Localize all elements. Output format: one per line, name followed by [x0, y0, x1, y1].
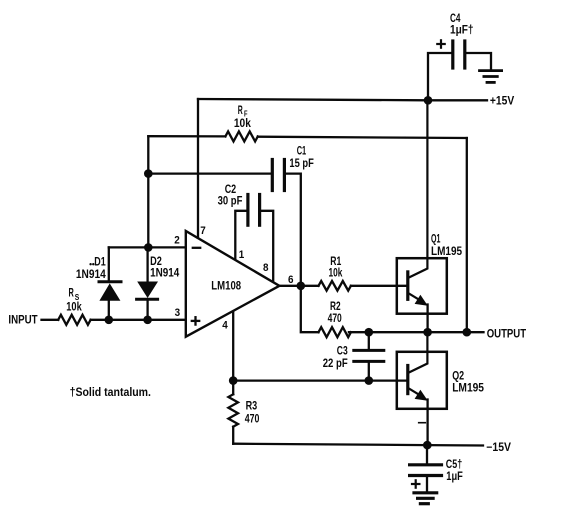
svg-text:1N914: 1N914: [150, 267, 180, 279]
resistor R1: [319, 281, 351, 291]
node C3 top: [365, 328, 374, 337]
svg-text:LM195: LM195: [452, 383, 484, 395]
capacitor C3: [354, 350, 384, 361]
svg-text:−15V: −15V: [486, 442, 511, 454]
node summing junction A: [144, 169, 153, 178]
svg-text:R2: R2: [330, 301, 341, 313]
wire C4 left branch: [428, 53, 453, 100]
svg-text:10k: 10k: [329, 268, 343, 280]
wire C2 right to pin 8: [260, 211, 274, 280]
node input/D1: [105, 316, 114, 325]
wire C4 right to ground: [465, 53, 491, 69]
svg-text:C3: C3: [337, 346, 348, 358]
wire D2 upper: [146, 247, 148, 281]
svg-text:INPUT: INPUT: [8, 315, 37, 327]
node +15V junction: [424, 96, 433, 105]
wire Q2 base line: [233, 379, 408, 381]
svg-text:D2: D2: [150, 256, 162, 268]
wire C5 top stub: [426, 445, 428, 463]
svg-text:C5†: C5†: [446, 459, 462, 471]
transistor Q1 emitter: [409, 294, 422, 302]
node C3 bottom: [365, 376, 374, 385]
wire RF feedback line: [148, 135, 225, 137]
resistor Rs: [58, 315, 90, 325]
wire D2 lower: [146, 299, 148, 320]
capacitor C2: [248, 195, 260, 226]
svg-text:470: 470: [328, 313, 342, 325]
svg-text:OUTPUT: OUTPUT: [487, 329, 526, 341]
resistor R2: [319, 327, 351, 337]
svg-text:6: 6: [288, 274, 294, 286]
ground (C5): [414, 493, 437, 504]
transistor Q2 base bar: [406, 366, 409, 394]
svg-text:C2: C2: [225, 184, 237, 196]
wire C3 stubs: [368, 332, 370, 350]
transistor Q1 collector: [409, 102, 428, 278]
diode D1 1N914: [99, 282, 121, 301]
svg-text:3: 3: [175, 307, 181, 319]
svg-text:1μF†: 1μF†: [450, 24, 474, 36]
capacitor C4: [453, 41, 465, 68]
ground (C4): [480, 71, 502, 83]
label C4 + polarity: [437, 40, 444, 47]
capacitor C1: [272, 160, 284, 191]
wire -15V rail: [233, 444, 483, 446]
transistor Q2 LM195 box: [397, 352, 447, 409]
wire artifact dash: [419, 422, 426, 424]
wire +15V top rail: [198, 99, 487, 100]
dots before D1: [89, 263, 91, 265]
svg-text:R1: R1: [330, 256, 341, 268]
wire C5 bottom stub: [426, 476, 428, 492]
transistor Q2 collector: [409, 332, 428, 372]
svg-text:R: R: [238, 105, 243, 117]
wire C1 line: [148, 172, 272, 174]
wire pin 4 vertical: [232, 313, 234, 381]
node pin4 / base line: [229, 376, 238, 385]
svg-text:1: 1: [239, 249, 245, 261]
svg-text:C4: C4: [450, 13, 461, 25]
wire output line: [349, 331, 484, 333]
op-amp minus sign: [193, 247, 200, 249]
svg-text:R: R: [69, 288, 75, 300]
resistor RF: [225, 131, 257, 141]
node input/D2: [143, 316, 152, 325]
node pin2/D junction: [144, 243, 153, 252]
svg-text:D1: D1: [94, 256, 106, 268]
svg-text:†Solid tantalum.: †Solid tantalum.: [70, 387, 151, 399]
wire D1 lower: [108, 301, 110, 320]
node 6: [297, 282, 306, 291]
transistor Q1 base bar: [406, 272, 409, 299]
svg-text:7: 7: [200, 225, 206, 237]
svg-text:22 pF: 22 pF: [323, 358, 348, 370]
svg-text:LM195: LM195: [431, 246, 463, 258]
transistor Q1 LM195 box: [397, 258, 447, 314]
svg-text:R3: R3: [246, 401, 258, 413]
diode D2 1N914: [137, 282, 158, 300]
svg-text:2: 2: [174, 235, 180, 247]
svg-text:4: 4: [222, 320, 228, 332]
svg-text:30 pF: 30 pF: [218, 195, 243, 207]
wire right vertical feedback to output: [466, 138, 468, 332]
label C5 + polarity: [412, 480, 419, 487]
wire pin 6 output of op-amp: [279, 285, 318, 287]
op-amp U1 LM108 triangle: [186, 231, 280, 337]
svg-text:+15V: +15V: [490, 96, 515, 108]
transistor Q2 emitter: [409, 389, 422, 397]
wire C2 left to pin 1: [235, 211, 248, 259]
svg-text:Q2: Q2: [452, 370, 464, 382]
wire C1 right to output node: [284, 174, 300, 286]
svg-text:Q1: Q1: [431, 234, 441, 246]
node -15V junction: [423, 441, 432, 450]
node Q1 emitter / Q2 collector: [423, 328, 432, 337]
wire input line: [42, 319, 59, 321]
svg-text:8: 8: [263, 262, 269, 274]
svg-text:10k: 10k: [66, 301, 82, 313]
wire pin7 vertical from rail to op-amp: [197, 99, 199, 238]
node feedback/output: [463, 328, 472, 337]
svg-text:LM108: LM108: [211, 280, 241, 292]
svg-text:C1: C1: [297, 145, 307, 157]
svg-text:15 pF: 15 pF: [289, 158, 313, 170]
op-amp plus sign: [192, 317, 199, 324]
wire node6 down to R2: [301, 286, 319, 332]
wire pin 2 inverting input: [109, 246, 186, 248]
wire left vertical to inverting input: [147, 136, 149, 247]
svg-text:470: 470: [245, 414, 260, 426]
capacitor C5: [410, 465, 442, 476]
svg-text:1N914: 1N914: [76, 269, 106, 281]
svg-text:10k: 10k: [234, 118, 252, 130]
resistor R3: [228, 394, 238, 426]
wire D1 upper: [108, 247, 110, 280]
wire R3 top/bottom: [232, 381, 234, 395]
svg-text:1μF: 1μF: [446, 471, 463, 483]
